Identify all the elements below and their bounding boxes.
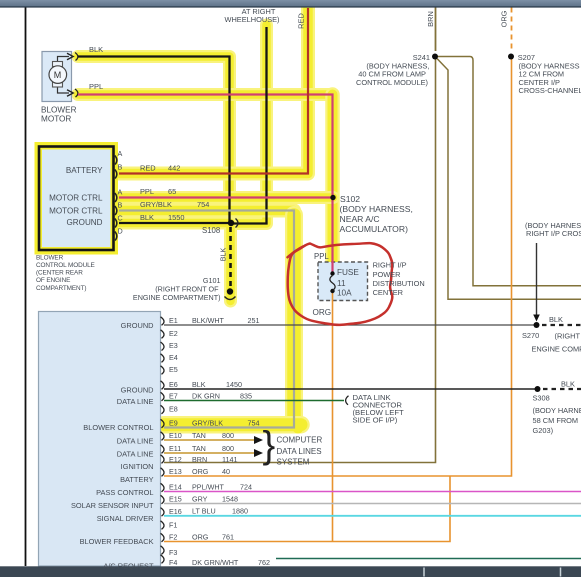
svg-text:1548: 1548 xyxy=(222,494,238,503)
svg-text:ORG: ORG xyxy=(500,10,509,27)
svg-text:1550: 1550 xyxy=(168,213,184,222)
svg-text:RIGHT I/P: RIGHT I/P xyxy=(373,261,407,270)
svg-text:RED: RED xyxy=(297,13,306,29)
svg-text:E3: E3 xyxy=(169,341,178,350)
svg-text:A: A xyxy=(118,149,123,158)
svg-text:E16: E16 xyxy=(169,507,182,516)
svg-text:TAN: TAN xyxy=(192,444,206,453)
svg-text:BLOWER FEEDBACK: BLOWER FEEDBACK xyxy=(80,537,154,546)
svg-text:BLK: BLK xyxy=(192,380,206,389)
svg-text:(BODY HARNESS,: (BODY HARNESS, xyxy=(533,406,581,415)
svg-text:754: 754 xyxy=(197,200,209,209)
svg-text:MOTOR CTRL: MOTOR CTRL xyxy=(49,194,103,203)
svg-text:DATA LINE: DATA LINE xyxy=(117,397,154,406)
svg-text:835: 835 xyxy=(240,391,252,400)
svg-text:DATA LINE: DATA LINE xyxy=(117,437,154,446)
svg-text:PASS CONTROL: PASS CONTROL xyxy=(96,488,153,497)
svg-text:RED: RED xyxy=(140,164,156,173)
svg-text:E7: E7 xyxy=(169,392,178,401)
svg-text:E8: E8 xyxy=(169,405,178,414)
svg-text:GROUND: GROUND xyxy=(121,321,154,330)
svg-text:B: B xyxy=(118,201,123,210)
svg-text:1141: 1141 xyxy=(222,455,237,464)
svg-text:DK GRN: DK GRN xyxy=(192,391,220,400)
svg-text:COMPARTMENT): COMPARTMENT) xyxy=(36,285,86,292)
svg-text:ORG: ORG xyxy=(192,532,209,541)
svg-text:BLK: BLK xyxy=(140,213,154,222)
svg-text:BLOWER: BLOWER xyxy=(36,254,64,261)
svg-text:(RIGHT: (RIGHT xyxy=(555,332,581,341)
svg-text:LT BLU: LT BLU xyxy=(192,507,216,516)
svg-text:M: M xyxy=(54,70,62,80)
svg-text:NEAR A/C: NEAR A/C xyxy=(340,214,380,224)
svg-text:40: 40 xyxy=(222,467,230,476)
svg-text:ORG: ORG xyxy=(313,308,332,317)
svg-text:B: B xyxy=(118,163,123,172)
svg-text:ACCUMULATOR): ACCUMULATOR) xyxy=(340,224,409,234)
svg-text:IGNITION: IGNITION xyxy=(121,462,154,471)
svg-text:58 CM FROM: 58 CM FROM xyxy=(533,416,579,425)
svg-text:762: 762 xyxy=(258,558,270,567)
svg-text:C: C xyxy=(118,214,123,223)
svg-text:F2: F2 xyxy=(169,533,177,542)
svg-text:BLOWER CONTROL: BLOWER CONTROL xyxy=(83,423,153,432)
svg-text:F4: F4 xyxy=(169,558,177,567)
svg-text:GROUND: GROUND xyxy=(121,386,154,395)
svg-text:(BODY HARNESS,: (BODY HARNESS, xyxy=(340,204,413,214)
svg-text:1880: 1880 xyxy=(232,507,248,516)
svg-text:GRY/BLK: GRY/BLK xyxy=(192,418,223,427)
svg-text:E4: E4 xyxy=(169,353,178,362)
svg-text:}: } xyxy=(263,425,276,467)
svg-text:S102: S102 xyxy=(340,194,360,204)
svg-text:D: D xyxy=(118,227,123,236)
svg-text:BRN: BRN xyxy=(426,11,435,27)
svg-text:DATA LINE: DATA LINE xyxy=(117,449,154,458)
svg-text:SYSTEM: SYSTEM xyxy=(277,458,310,467)
svg-text:800: 800 xyxy=(222,444,234,453)
svg-text:S108: S108 xyxy=(202,226,220,235)
svg-text:PPL/WHT: PPL/WHT xyxy=(192,482,225,491)
svg-text:WHEELHOUSE): WHEELHOUSE) xyxy=(224,15,279,24)
svg-text:65: 65 xyxy=(168,187,176,196)
svg-text:COMPUTER: COMPUTER xyxy=(277,436,323,445)
svg-text:761: 761 xyxy=(222,532,234,541)
svg-text:BLOWER: BLOWER xyxy=(41,105,77,114)
svg-text:BATTERY: BATTERY xyxy=(120,475,153,484)
svg-text:DISTRIBUTION: DISTRIBUTION xyxy=(373,279,425,288)
svg-text:GRY/BLK: GRY/BLK xyxy=(140,200,172,209)
svg-text:1450: 1450 xyxy=(226,380,242,389)
svg-text:S308: S308 xyxy=(533,394,550,403)
svg-text:BLK: BLK xyxy=(89,45,103,54)
svg-text:CONTROL MODULE): CONTROL MODULE) xyxy=(356,78,428,87)
svg-text:E14: E14 xyxy=(169,483,182,492)
svg-text:PPL: PPL xyxy=(89,82,103,91)
svg-text:251: 251 xyxy=(248,316,260,325)
svg-text:ENGINE COMPARTMENT): ENGINE COMPARTMENT) xyxy=(532,345,581,354)
svg-text:SOLAR SENSOR INPUT: SOLAR SENSOR INPUT xyxy=(71,501,154,510)
svg-text:CROSS-CHANNEL: CROSS-CHANNEL xyxy=(519,86,581,95)
svg-text:A/C REQUEST: A/C REQUEST xyxy=(103,562,154,571)
svg-text:800: 800 xyxy=(222,431,234,440)
svg-text:SIGNAL DRIVER: SIGNAL DRIVER xyxy=(97,514,154,523)
svg-text:724: 724 xyxy=(240,482,252,491)
svg-text:F3: F3 xyxy=(169,548,177,557)
svg-text:E1: E1 xyxy=(169,316,178,325)
svg-text:(CENTER REAR: (CENTER REAR xyxy=(36,269,83,276)
svg-text:POWER: POWER xyxy=(373,270,401,279)
svg-text:E5: E5 xyxy=(169,365,178,374)
svg-text:E13: E13 xyxy=(169,467,182,476)
svg-text:RIGHT I/P CROSS-CH: RIGHT I/P CROSS-CH xyxy=(526,229,581,238)
svg-text:BRN: BRN xyxy=(192,455,207,464)
svg-text:A: A xyxy=(118,188,123,197)
svg-text:F1: F1 xyxy=(169,521,177,530)
svg-text:11: 11 xyxy=(337,279,346,288)
svg-text:PPL: PPL xyxy=(314,252,329,261)
svg-text:GRY: GRY xyxy=(192,494,208,503)
svg-text:DK GRN/WHT: DK GRN/WHT xyxy=(192,558,239,567)
svg-text:10A: 10A xyxy=(337,289,352,298)
svg-text:E2: E2 xyxy=(169,329,178,338)
svg-text:BLK: BLK xyxy=(561,380,575,389)
svg-text:E10: E10 xyxy=(169,431,182,440)
svg-text:CENTER: CENTER xyxy=(373,288,403,297)
svg-text:E15: E15 xyxy=(169,495,182,504)
svg-text:S270: S270 xyxy=(522,331,539,340)
svg-text:ENGINE COMPARTMENT): ENGINE COMPARTMENT) xyxy=(133,293,221,302)
svg-text:ORG: ORG xyxy=(192,467,209,476)
svg-text:E9: E9 xyxy=(169,419,178,428)
svg-text:TAN: TAN xyxy=(192,431,206,440)
svg-text:CONTROL MODULE: CONTROL MODULE xyxy=(36,262,95,269)
svg-text:MOTOR: MOTOR xyxy=(41,114,71,123)
svg-text:DATA LINES: DATA LINES xyxy=(277,447,322,456)
svg-text:754: 754 xyxy=(248,418,260,427)
svg-text:E12: E12 xyxy=(169,455,182,464)
svg-text:BLK/WHT: BLK/WHT xyxy=(192,316,225,325)
svg-text:E6: E6 xyxy=(169,380,178,389)
svg-text:BLK: BLK xyxy=(219,248,228,262)
svg-text:E11: E11 xyxy=(169,444,181,453)
svg-text:MOTOR CTRL: MOTOR CTRL xyxy=(49,207,103,216)
svg-text:PPL: PPL xyxy=(140,187,154,196)
svg-text:FUSE: FUSE xyxy=(337,268,359,277)
svg-text:BLK: BLK xyxy=(549,315,563,324)
svg-text:OF ENGINE: OF ENGINE xyxy=(36,277,70,284)
svg-text:G203): G203) xyxy=(533,426,554,435)
svg-text:BATTERY: BATTERY xyxy=(66,166,103,175)
svg-text:SIDE OF I/P): SIDE OF I/P) xyxy=(353,416,398,425)
svg-text:442: 442 xyxy=(168,164,180,173)
svg-text:GROUND: GROUND xyxy=(67,218,103,227)
